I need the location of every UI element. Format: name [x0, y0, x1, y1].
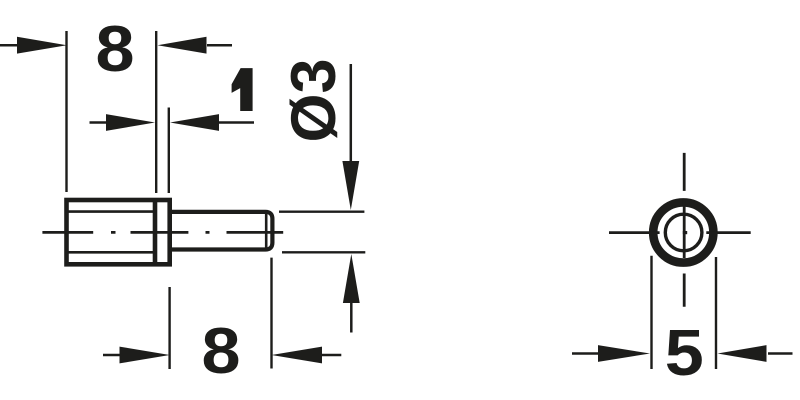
dimension text 1 (collar width) [232, 68, 253, 111]
dimension line 5 left with arrow [572, 352, 598, 355]
outer circle (5mm, end view) [653, 202, 713, 262]
dimension line top-left with arrow [0, 44, 18, 47]
dimension line bottom-left with arrow [103, 354, 120, 357]
extension line right (5) [715, 257, 717, 369]
dimension line 1 left with arrow [90, 121, 107, 124]
svg-text:Ø3: Ø3 [279, 58, 349, 142]
collar boundary line [153, 200, 158, 264]
dimension line top-right with arrow [207, 44, 232, 47]
body outline (5mm sleeve, side view) [67, 200, 170, 264]
dimension line 5 right with arrow [768, 352, 793, 355]
pin (3mm, side view) [170, 212, 273, 250]
extension line pin top [279, 210, 364, 212]
svg-text:8: 8 [95, 13, 134, 85]
extension line left (top 8) [65, 31, 67, 192]
vertical centerline (end view) [683, 153, 686, 307]
horizontal centerline (end view) [609, 231, 751, 234]
body inner bottom line [68, 251, 154, 254]
extension line pin bottom [282, 251, 365, 253]
pin tip inner line [265, 212, 268, 250]
extension line right of collar (1) [168, 108, 170, 194]
extension line right (top 8 / left of 1) [155, 31, 157, 193]
inner circle (3mm hole) [665, 214, 702, 251]
dimension line bottom-right with arrow [322, 354, 341, 357]
diameter dimension line lower with up arrow [343, 254, 360, 303]
extension line left (5) [650, 256, 652, 369]
body inner top line [68, 210, 154, 213]
dimension line 1 right with arrow [219, 121, 254, 124]
diameter dimension line upper with down arrow [350, 64, 353, 162]
extension line right (bottom 8) [270, 258, 272, 369]
svg-text:5: 5 [665, 318, 704, 390]
extension line left (bottom 8) [168, 287, 170, 369]
centerline (side view) [42, 231, 283, 234]
svg-text:8: 8 [201, 315, 240, 387]
